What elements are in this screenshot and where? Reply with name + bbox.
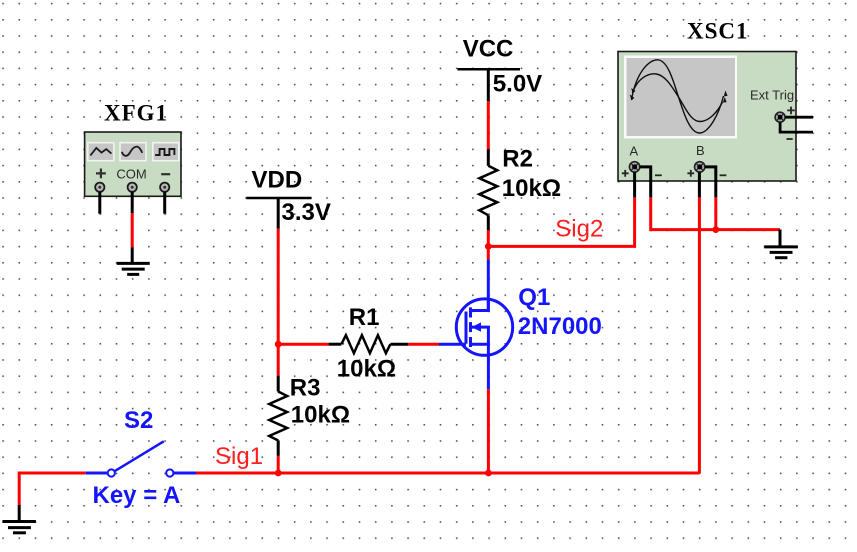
power VCC 5.0V [458,35,543,97]
scope trace small sine [633,74,723,122]
B terminal [695,162,705,172]
wire R3 to Sig1 net [277,441,280,474]
Ext Trig terminal [775,112,785,122]
transistor Q1 (2N7000 NMOS) [456,299,512,355]
wire B+ to Sig1 net [698,172,701,473]
wire Ext Trig minus stub [780,122,813,132]
junction VDD / R1 / R3 [275,341,282,348]
svg-text:COM: COM [116,166,146,181]
svg-text:Q1: Q1 [518,284,550,311]
svg-text:R1: R1 [349,304,380,331]
svg-text:Sig1: Sig1 [215,443,263,470]
svg-text:3.3V: 3.3V [282,199,331,226]
svg-text:VCC: VCC [463,35,514,62]
svg-text:A: A [630,143,639,158]
junction Sig2 / R2 / Q1 drain [485,243,492,250]
svg-text:Key = A: Key = A [93,482,181,509]
svg-text:S2: S2 [124,407,153,434]
svg-text:XSC1: XSC1 [687,19,749,44]
svg-text:XFG1: XFG1 [104,101,168,126]
wire A- to scope ground [640,167,780,230]
oscilloscope XSC1 [618,52,798,182]
svg-text:10kΩ: 10kΩ [337,355,396,382]
wire Q1 source to Sig1 [487,355,490,473]
wire ground drop (scope) [779,230,782,246]
wire left ground to S2 [19,473,108,520]
svg-text:5.0V: 5.0V [493,70,542,97]
junction Sig1 / Q1 source [485,470,492,477]
wire XFG1 plus stub [98,192,101,214]
resistor R1 [341,335,390,353]
resistor R3 [269,392,287,441]
wire junction to R3 [277,344,280,391]
ground GND1 (XFG1 COM) [117,263,150,274]
function generator XFG1 [85,132,181,196]
wire B- stub to ground net [705,167,716,230]
svg-text:R3: R3 [290,375,321,402]
power VDD 3.3V [246,166,331,226]
wire R2 to Sig2 junction [487,215,490,246]
A terminal [629,162,639,172]
wire junction to R1 [278,343,341,346]
svg-text:VDD: VDD [252,166,303,193]
wire Q1 drain [487,246,490,310]
scope trace big sine [632,60,724,133]
svg-text:B: B [696,143,705,158]
svg-text:10kΩ: 10kΩ [291,401,350,428]
ground GND3 (bottom left) [3,522,36,533]
svg-text:2N7000: 2N7000 [518,313,602,340]
wire Sig1 net [196,472,699,475]
ground GND2 (scope) [764,247,798,258]
svg-text:Ext Trig.: Ext Trig. [750,88,798,103]
resistor R2 [479,166,497,216]
wire VCC to R2 [487,69,490,166]
wire VDD to junction [277,198,280,344]
junction B- / ground net [712,226,719,233]
wire XFG1 minus stub [163,192,166,214]
wire R1 to Q1 gate [390,343,466,346]
junction Sig1 / R3 [275,470,282,477]
svg-text:R2: R2 [502,145,533,172]
wire Sig2 net (A+ to R2/Q1 junction) [488,172,634,246]
svg-text:Sig2: Sig2 [555,216,603,243]
svg-text:10kΩ: 10kΩ [502,175,561,202]
wire Ext Trig plus stub [785,116,813,119]
switch S2 [108,441,196,476]
wire XFG1 COM to ground [131,192,134,262]
